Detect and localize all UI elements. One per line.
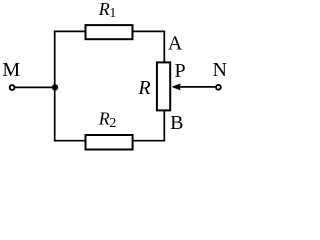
svg-text:2: 2 [110,115,117,130]
wire left [54,31,56,142]
wire top [54,30,165,32]
svg-text:R: R [98,0,110,19]
node junction dot [52,84,58,90]
svg-text:M: M [2,59,20,81]
wire M terminal [12,86,55,88]
svg-text:N: N [213,59,227,81]
svg-text:1: 1 [110,5,117,20]
wire right [163,31,165,142]
terminal M circle [10,85,15,90]
svg-text:P: P [175,60,186,82]
wire wiper to N [174,86,218,88]
svg-text:R: R [137,77,150,99]
svg-text:R: R [98,109,110,129]
potentiometer R body [157,62,170,110]
wiper arrowhead [171,83,180,90]
svg-text:A: A [168,33,183,55]
wire bottom [54,140,165,142]
resistor R2 [86,135,133,150]
terminal N circle [216,85,221,90]
svg-text:B: B [170,112,183,134]
resistor R1 [86,25,133,39]
